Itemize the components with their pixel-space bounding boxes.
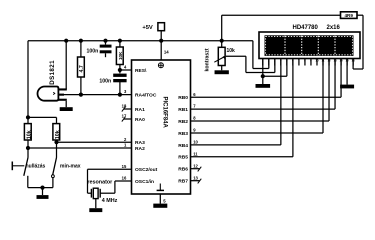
svg-text:RES\: RES\ (135, 68, 147, 74)
svg-text:RA1: RA1 (135, 107, 145, 113)
svg-text:RB6: RB6 (178, 167, 188, 173)
svg-text:10K: 10K (118, 51, 123, 60)
svg-text:RB2: RB2 (178, 119, 188, 125)
svg-text:nullázás: nullázás (26, 164, 46, 170)
svg-text:RB4: RB4 (178, 143, 188, 149)
svg-text:OSC2/out: OSC2/out (135, 167, 158, 173)
svg-text:RB5: RB5 (178, 155, 188, 161)
svg-text:10: 10 (193, 140, 198, 145)
svg-text:+5V: +5V (142, 25, 153, 31)
svg-text:RA0: RA0 (135, 117, 145, 123)
svg-text:kontraszt: kontraszt (205, 48, 211, 71)
svg-text:4.7: 4.7 (79, 65, 85, 72)
svg-text:RB0: RB0 (178, 95, 188, 101)
svg-text:13: 13 (193, 175, 198, 180)
svg-text:HD47780: HD47780 (293, 25, 319, 31)
svg-text:RA3: RA3 (135, 140, 145, 146)
svg-text:RB7: RB7 (178, 179, 188, 185)
svg-text:12: 12 (193, 163, 198, 168)
svg-text:RB3: RB3 (178, 131, 188, 137)
svg-text:10k: 10k (27, 130, 33, 139)
svg-text:4 MHz: 4 MHz (102, 198, 118, 204)
svg-text:11: 11 (193, 151, 198, 156)
svg-text:RB1: RB1 (178, 107, 188, 113)
svg-text:min-max: min-max (60, 164, 81, 170)
svg-text:2x16: 2x16 (327, 25, 341, 31)
svg-text:4R9: 4R9 (344, 13, 353, 18)
svg-text:14: 14 (164, 50, 169, 55)
svg-text:PIC16F84A: PIC16F84A (161, 97, 167, 129)
svg-text:OSC1/in: OSC1/in (135, 179, 154, 185)
svg-text:10k: 10k (227, 48, 236, 54)
svg-text:RA4/TOC: RA4/TOC (135, 93, 157, 99)
svg-text:100n: 100n (99, 79, 111, 85)
svg-text:10k: 10k (55, 130, 61, 139)
svg-text:resonator: resonator (87, 180, 113, 186)
svg-text:100n: 100n (86, 49, 98, 55)
svg-text:15: 15 (122, 164, 127, 169)
svg-text:16: 16 (122, 176, 127, 181)
svg-text:DS1821: DS1821 (49, 60, 56, 85)
svg-text:RA2: RA2 (135, 146, 145, 152)
